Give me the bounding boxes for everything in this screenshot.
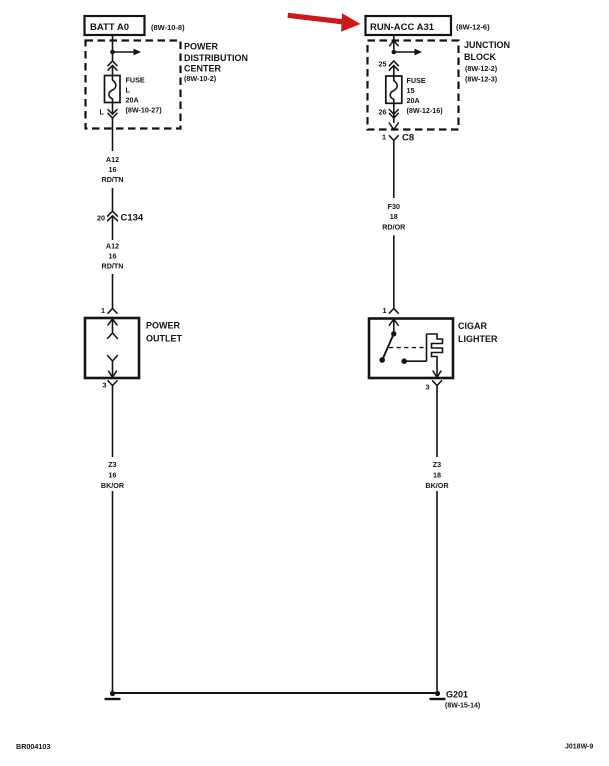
svg-text:BATT A0: BATT A0: [90, 22, 129, 33]
pin 3 power outlet: [103, 381, 118, 458]
svg-text:26: 26: [379, 108, 387, 117]
power outlet box: [85, 318, 139, 378]
svg-text:RD/TN: RD/TN: [102, 175, 124, 184]
wire label A12 16 RD/TN: [102, 242, 124, 271]
svg-text:OUTLET: OUTLET: [146, 334, 182, 344]
svg-text:A12: A12: [106, 155, 119, 164]
pin 1 power outlet: [101, 306, 117, 315]
label POWER OUTLET: [146, 321, 182, 344]
wire label F30 18 RD/OR: [382, 202, 406, 231]
power distribution center dashed box: [86, 41, 181, 129]
wire fuse to PDC exit: [112, 103, 114, 115]
junction block entry arrow: [390, 41, 399, 46]
svg-text:BK/OR: BK/OR: [101, 481, 125, 490]
wire to ground: [112, 491, 114, 691]
label CIGAR LIGHTER: [458, 321, 498, 344]
wire node to fuse: [112, 52, 114, 61]
svg-text:RD/OR: RD/OR: [382, 222, 406, 231]
power outlet internal top terminal: [108, 319, 118, 339]
svg-text:1: 1: [101, 306, 105, 315]
wire to label gap: [112, 118, 114, 151]
svg-text:16: 16: [109, 252, 117, 261]
wire: [112, 216, 114, 240]
arrow to other circuits: [113, 49, 142, 56]
svg-text:CIGAR: CIGAR: [458, 321, 488, 331]
connector chevrons (PDC fuse cavity top): [108, 61, 117, 70]
svg-text:C134: C134: [121, 213, 144, 224]
svg-text:LIGHTER: LIGHTER: [458, 334, 498, 344]
svg-text:POWER: POWER: [146, 321, 181, 331]
svg-text:20: 20: [97, 214, 105, 223]
svg-text:3: 3: [103, 381, 107, 390]
wire BATT A0 to node: [112, 35, 114, 52]
node junction dot: [392, 50, 397, 55]
fuse labels: [126, 76, 163, 115]
svg-text:BLOCK: BLOCK: [464, 52, 496, 62]
svg-text:RD/TN: RD/TN: [102, 262, 124, 271]
svg-text:L: L: [100, 108, 105, 117]
pin 3 cigar lighter: [426, 381, 442, 457]
mechanical link dashed: [389, 347, 426, 349]
wire chevrons to fuse: [112, 66, 114, 76]
connector chevrons (PDC exit): [108, 110, 117, 119]
wire to ground: [436, 491, 438, 691]
connector chevrons (JB fuse cavity top): [389, 61, 398, 70]
wire: [393, 235, 395, 308]
svg-text:BR004103: BR004103: [16, 742, 50, 751]
svg-text:DISTRIBUTION: DISTRIBUTION: [184, 53, 248, 63]
svg-text:(8W-10-2): (8W-10-2): [184, 74, 217, 83]
connector chevrons (JB exit): [389, 110, 398, 119]
svg-text:J018W-9: J018W-9: [565, 744, 593, 751]
svg-text:BK/OR: BK/OR: [425, 481, 449, 490]
ground label G201: [445, 690, 480, 710]
svg-text:16: 16: [109, 165, 117, 174]
svg-text:25: 25: [379, 60, 387, 69]
wire fuse to JB exit: [393, 103, 395, 123]
red callout arrow: [288, 13, 361, 32]
label POWER DISTRIBUTION CENTER: [184, 42, 248, 84]
svg-text:15: 15: [407, 86, 415, 95]
svg-text:(8W-10-8): (8W-10-8): [151, 23, 185, 32]
switch fixed contact dot: [401, 358, 407, 364]
svg-text:20A: 20A: [126, 96, 139, 105]
wire RUN-ACC to junction block: [393, 35, 395, 52]
svg-text:Z3: Z3: [108, 460, 116, 469]
svg-text:18: 18: [433, 471, 441, 480]
battery feed box BATT A0: [85, 16, 145, 35]
svg-text:RUN-ACC A31: RUN-ACC A31: [370, 22, 435, 33]
run-acc feed box RUN-ACC A31: [366, 16, 452, 35]
wire: [112, 188, 114, 211]
switch pivot dot: [391, 331, 396, 336]
svg-text:(8W-12-3): (8W-12-3): [465, 75, 498, 84]
svg-text:A12: A12: [106, 242, 119, 251]
switch blade: [382, 334, 394, 360]
pin 1 cigar lighter: [383, 306, 399, 315]
svg-text:POWER: POWER: [184, 42, 219, 52]
connector C8: [382, 133, 414, 199]
svg-text:(8W-15-14): (8W-15-14): [445, 703, 480, 710]
svg-text:(8W-12-6): (8W-12-6): [456, 23, 490, 32]
svg-text:18: 18: [390, 212, 398, 221]
svg-text:(8W-10-27): (8W-10-27): [126, 106, 163, 115]
ground bus wire: [113, 692, 438, 694]
svg-text:1: 1: [383, 306, 387, 315]
power outlet internal bottom terminal: [108, 356, 118, 378]
wire: [112, 274, 114, 309]
svg-text:JUNCTION: JUNCTION: [464, 40, 510, 50]
connector C134: [97, 211, 144, 223]
svg-text:G201: G201: [446, 690, 468, 700]
label JUNCTION BLOCK: [464, 40, 510, 83]
svg-text:3: 3: [426, 383, 430, 392]
fuse 15 20A: [386, 76, 402, 103]
cigar lighter internal top terminal: [389, 319, 398, 334]
junction block dashed box: [368, 41, 459, 130]
cigar lighter box: [369, 319, 453, 379]
JB exit arrow: [389, 123, 398, 130]
ground symbol G201: [430, 691, 446, 699]
node junction dot: [110, 50, 115, 55]
svg-text:CENTER: CENTER: [184, 64, 222, 74]
svg-text:F30: F30: [388, 202, 400, 211]
wire contact to element: [405, 360, 427, 362]
ground symbol left: [105, 691, 121, 699]
arrow to other circuits: [394, 49, 422, 56]
svg-text:FUSE: FUSE: [126, 76, 145, 85]
svg-text:L: L: [126, 86, 131, 95]
fuse L 20A: [105, 76, 121, 104]
heating element: [427, 334, 443, 369]
svg-text:Z3: Z3: [433, 460, 441, 469]
element output arrow: [433, 369, 441, 378]
wire label Z3 16 BK/OR: [101, 460, 125, 490]
wire chevrons to fuse: [393, 66, 395, 77]
wire label Z3 18 BK/OR: [425, 460, 449, 490]
svg-text:FUSE: FUSE: [407, 76, 426, 85]
wire label A12 16 RD/TN: [102, 155, 124, 184]
svg-text:C8: C8: [402, 133, 414, 144]
svg-text:(8W-12-16): (8W-12-16): [407, 106, 444, 115]
switch open contact dot: [379, 357, 385, 363]
svg-text:20A: 20A: [407, 96, 420, 105]
svg-text:(8W-12-2): (8W-12-2): [465, 64, 498, 73]
svg-text:16: 16: [109, 471, 117, 480]
fuse labels: [407, 76, 444, 115]
svg-text:1: 1: [382, 133, 386, 142]
